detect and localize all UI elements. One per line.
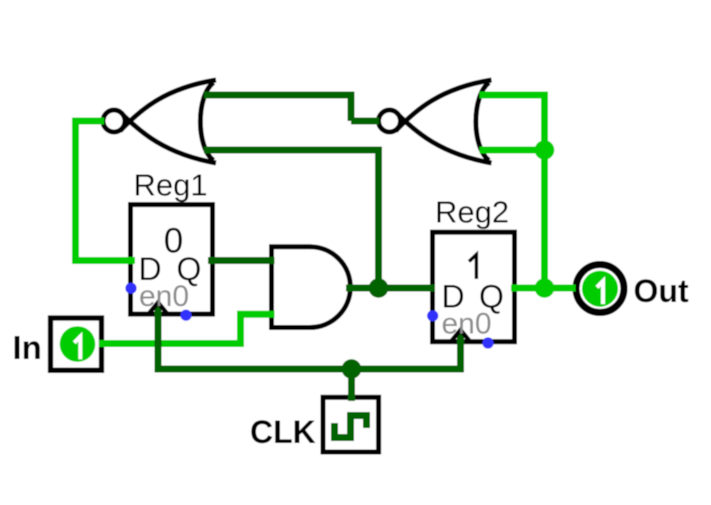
wire left vertical drop <box>72 118 79 265</box>
svg-text:en0: en0 <box>139 280 189 313</box>
clock CLK waveform <box>335 416 367 438</box>
NOR gate U2 body <box>396 80 492 163</box>
junction at AND output <box>369 278 389 298</box>
junction at NOR2 bottom input <box>535 140 555 160</box>
wire to AND lower input <box>237 311 275 318</box>
register Reg1 clock triangle <box>149 303 168 315</box>
register Reg2 clock triangle <box>451 330 470 342</box>
wire right feedback vertical <box>541 92 548 289</box>
wire Reg2 clock drop <box>457 332 464 373</box>
wire NOR1 bottom input run <box>204 147 382 154</box>
svg-text:CLK: CLK <box>250 414 316 450</box>
NOR gate U1 body <box>120 80 216 163</box>
wire down to AND output row <box>375 147 382 289</box>
svg-text:In: In <box>13 329 42 366</box>
svg-text:en0: en0 <box>442 308 492 341</box>
wire NOR1 top input run <box>204 92 355 99</box>
wire clock bus <box>155 366 465 373</box>
AND gate U3 <box>272 247 351 328</box>
wire CLK pin riser <box>348 366 355 402</box>
output pin Out state digit <box>597 281 603 304</box>
unconnected dot Reg1 bottom <box>180 310 191 321</box>
wire Reg1 clock drop <box>155 304 162 373</box>
junction at Reg2 Q <box>535 278 555 298</box>
wire elbow up <box>237 314 244 347</box>
input pin In square <box>51 318 102 370</box>
junction at CLK <box>342 359 362 379</box>
unconnected dot Reg1 en <box>125 283 136 294</box>
wire NOR2 top input run <box>480 92 549 99</box>
register Reg2 value 1 <box>469 255 476 279</box>
svg-text:Reg1: Reg1 <box>134 168 208 203</box>
wire Reg1 Q to AND upper input <box>208 257 275 264</box>
output pin Out state circle <box>582 271 618 307</box>
input pin In state digit <box>74 337 80 360</box>
NOR gate U1 output bubble <box>103 110 125 132</box>
input pin In state circle <box>60 326 96 362</box>
unconnected dot Reg2 bottom <box>482 337 493 348</box>
svg-text:Reg2: Reg2 <box>435 195 509 230</box>
wire into Reg1 D <box>72 257 135 264</box>
NOR gate U2 output bubble <box>379 110 401 132</box>
register Reg2 box <box>433 232 515 342</box>
clock CLK box <box>323 397 379 452</box>
wire Reg2 Q to Out <box>511 285 576 292</box>
svg-text:Out: Out <box>634 273 689 309</box>
wire AND output to Reg2 D <box>346 285 435 292</box>
wire In pin run <box>99 340 244 347</box>
output pin Out ring <box>576 265 624 313</box>
wire NOR2 bottom input run <box>480 147 549 154</box>
wire down to NOR2 output level <box>348 92 355 122</box>
wire NOR1 output to elbow <box>72 118 104 125</box>
wire into NOR2 output bubble <box>351 118 379 125</box>
register Reg1 box <box>131 205 213 315</box>
unconnected dot Reg2 en <box>427 310 438 321</box>
